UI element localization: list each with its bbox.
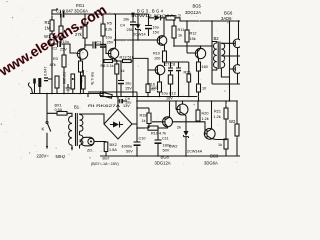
capacitor C10 [134, 141, 141, 143]
switch K [46, 94, 48, 122]
zener DW2 [184, 131, 189, 136]
wire collector bus [174, 45, 212, 47]
svg-text:R18: R18 [140, 114, 147, 118]
resistor R25 [188, 62, 190, 74]
transistor BG6b [233, 65, 242, 74]
transistor BG3 [157, 36, 167, 46]
capacitor C6b [71, 74, 75, 89]
svg-text:10u: 10u [106, 36, 112, 40]
svg-text:10: 10 [202, 87, 206, 91]
resistor R3 [63, 44, 65, 94]
svg-text:B1: B1 [74, 105, 80, 110]
capacitor C3a sideways (0.047) [44, 77, 48, 78]
transistor BG9 [204, 128, 215, 139]
capacitor C4 coupling [85, 44, 92, 46]
svg-text:C4: C4 [120, 24, 125, 28]
resistor R7 [55, 76, 59, 88]
svg-text:50V: 50V [126, 150, 133, 154]
capacitor input left 2 [38, 78, 41, 87]
wire y128 [137, 127, 148, 129]
transformer B1 leads [71, 145, 73, 148]
svg-text:BG7: BG7 [103, 157, 110, 161]
svg-text:15k: 15k [190, 37, 196, 41]
svg-text:13V: 13V [123, 104, 130, 108]
svg-text:R8 3.1k: R8 3.1k [101, 64, 114, 68]
svg-text:R5: R5 [107, 22, 112, 26]
input hook J [28, 83, 31, 89]
svg-text:BG6: BG6 [224, 11, 233, 16]
svg-text:R25: R25 [184, 71, 191, 75]
wire bottom rail [100, 155, 240, 157]
resistor R20 [197, 101, 199, 122]
wire left bottom rail [30, 89, 104, 94]
resistor R2 [60, 14, 62, 43]
svg-text:1k: 1k [178, 34, 182, 38]
svg-text:3AD6: 3AD6 [221, 16, 232, 21]
resistor R5 [102, 14, 104, 44]
svg-text:1M: 1M [45, 26, 51, 31]
capacitor C9 [118, 97, 120, 102]
svg-text:R7 390: R7 390 [62, 72, 66, 84]
resistor R6 (BG1 emitter) [79, 61, 83, 72]
resistor R23 [225, 139, 227, 156]
svg-text:R12: R12 [190, 32, 197, 36]
svg-text:C5 10u: C5 10u [79, 72, 83, 84]
svg-text:8.2k: 8.2k [105, 28, 112, 32]
transformer B2 core [218, 42, 220, 70]
svg-text:0.047: 0.047 [44, 66, 48, 76]
svg-text:BG1: BG1 [76, 3, 85, 8]
transformer B1 primary [69, 116, 72, 145]
svg-text:C3: C3 [97, 41, 102, 45]
resistor R15 [147, 70, 149, 97]
wire BG6 chain [238, 21, 239, 84]
capacitor C13 electrolytic [168, 75, 172, 84]
resistor R18 [148, 108, 150, 128]
capacitor C3 electrolytic [100, 43, 106, 45]
svg-text:C11: C11 [162, 137, 169, 141]
svg-text:2CW14: 2CW14 [133, 33, 146, 37]
transformer B2 leads [212, 42, 240, 78]
bridge rectifier [104, 109, 132, 139]
svg-text:R3: R3 [53, 57, 58, 61]
resistor R8 horizontal [104, 60, 113, 63]
resistor R9 [115, 64, 119, 74]
capacitor C5b [82, 76, 86, 89]
svg-text:3DG12A: 3DG12A [155, 161, 171, 166]
svg-text:50V: 50V [163, 149, 170, 153]
transistor BG1 [77, 49, 87, 59]
resistor R21 [225, 101, 227, 140]
svg-text:BX2: BX2 [110, 143, 117, 147]
neon lamp ZD [81, 137, 94, 146]
resistor R13 feedback [123, 60, 132, 63]
svg-text:10u C12: 10u C12 [162, 92, 176, 96]
svg-text:10k: 10k [123, 18, 129, 22]
svg-text:1k: 1k [218, 143, 222, 147]
transformer B1 core [76, 113, 78, 146]
svg-text:R9 4.7k: R9 4.7k [90, 72, 94, 85]
svg-text:R1: R1 [45, 20, 51, 25]
svg-text:BG9: BG9 [210, 154, 219, 159]
svg-text:B2: B2 [214, 36, 220, 41]
svg-text:R13 51k: R13 51k [120, 56, 134, 60]
ground symbol [66, 84, 71, 92]
capacitor C1 [60, 11, 62, 18]
capacitor C2 [52, 43, 57, 45]
svg-text:2k: 2k [177, 126, 181, 130]
svg-text:220V~: 220V~ [37, 154, 50, 159]
wire stub down [87, 94, 89, 98]
svg-text:16V: 16V [166, 97, 173, 101]
transistor BG5 [195, 48, 205, 58]
svg-text:160: 160 [202, 65, 208, 69]
svg-text:R20: R20 [202, 112, 209, 116]
svg-text:DW2: DW2 [169, 145, 177, 149]
capacitors C7 C8 [165, 62, 189, 68]
resistor R10 [163, 51, 167, 62]
svg-text:1k: 1k [142, 119, 146, 123]
svg-text:C10: C10 [139, 137, 146, 141]
resistor R12 [186, 21, 188, 53]
svg-text:15V: 15V [125, 87, 132, 91]
svg-text:R11: R11 [178, 28, 185, 32]
svg-text:100: 100 [151, 86, 157, 90]
transistor BG8 [163, 117, 173, 127]
resistor R1 [51, 14, 53, 34]
wire right columns [212, 21, 240, 84]
wire regulator top rail [137, 100, 237, 102]
transformer B1 secondary [80, 115, 83, 132]
svg-text:3DG12A: 3DG12A [185, 10, 201, 15]
svg-text:3CW12 3DG6A×2: 3CW12 3DG6A×2 [131, 14, 181, 18]
svg-text:2CW14A: 2CW14A [187, 150, 203, 154]
capacitor C5 on rail [132, 13, 135, 16]
transformer B2 primary [214, 43, 217, 68]
wire rectifier feed [88, 91, 137, 93]
svg-text:BG5: BG5 [193, 4, 202, 9]
svg-text:W2: W2 [229, 119, 236, 124]
svg-text:1000u: 1000u [122, 145, 133, 149]
diode D1 on rail [155, 15, 161, 20]
svg-text:Rt RK627A: Rt RK627A [88, 104, 121, 108]
potentiometer W1 [50, 34, 54, 45]
resistor R17 [197, 84, 201, 92]
svg-text:25V: 25V [127, 28, 134, 32]
resistor R15b [197, 62, 201, 71]
zener DW1 [137, 14, 139, 24]
svg-text:10u: 10u [153, 26, 159, 30]
svg-text:R19 4.7k: R19 4.7k [151, 132, 166, 136]
wire input stub and top supply rail [52, 8, 240, 21]
transformer B1 winding 2 [80, 135, 83, 145]
fuse BX2 [105, 141, 107, 144]
transistor BG4 [155, 65, 165, 75]
transformer B2 secondary [221, 43, 224, 68]
resistor R14 on rail [166, 16, 175, 20]
svg-text:1.2k: 1.2k [202, 117, 209, 121]
capacitor C11 [157, 130, 159, 140]
svg-text:ZD: ZD [87, 149, 92, 153]
svg-text:3DG6A: 3DG6A [204, 161, 218, 166]
resistor R16 (BG4 emitter) [158, 82, 162, 92]
transistor BG2 [108, 48, 118, 58]
svg-text:15V: 15V [153, 31, 160, 35]
svg-text:25V: 25V [107, 41, 114, 45]
svg-text:1.2k: 1.2k [214, 115, 221, 119]
svg-text:R10: R10 [153, 52, 160, 56]
svg-text:10u: 10u [125, 82, 131, 86]
svg-text:1.5A: 1.5A [109, 148, 117, 152]
wire right edge column [229, 60, 231, 101]
svg-text:C7,C8: C7,C8 [165, 63, 176, 67]
capacitor C6 [148, 18, 150, 26]
capacitor C14 on x=121 [118, 80, 124, 82]
svg-text:K: K [42, 127, 45, 132]
potentiometer W2 [236, 101, 238, 156]
svg-text:BG8: BG8 [161, 155, 170, 160]
wire y108 [137, 107, 149, 109]
thermistor RT diagonal [100, 92, 113, 98]
capacitor input left [33, 79, 36, 84]
resistor R4 [84, 14, 86, 45]
svg-text:BX1: BX1 [55, 104, 62, 108]
fuse BX1 [57, 112, 67, 116]
transistor BG6a [233, 39, 242, 48]
wire bridge to C10 [132, 92, 137, 156]
svg-text:0.5A: 0.5A [55, 108, 63, 112]
svg-text:(BG7=-1A~-15V): (BG7=-1A~-15V) [91, 162, 119, 166]
transistor BG7 [177, 104, 188, 115]
wire BG2 emitter branch [120, 61, 122, 97]
svg-text:47k: 47k [50, 63, 56, 67]
resistor R19 horizontal [148, 126, 158, 130]
resistor R11 [173, 20, 175, 46]
wire BG8 to BG9 [173, 122, 208, 134]
